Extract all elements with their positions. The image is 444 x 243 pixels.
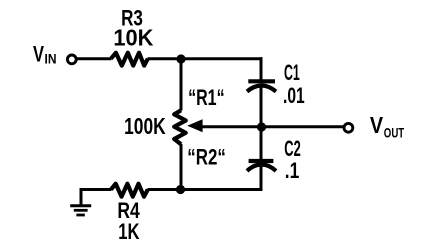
node dot wiper (junction wiper / C1 / C2 / VOUT): [257, 122, 266, 131]
svg-text:V: V: [33, 41, 44, 66]
terminal VOUT: [344, 123, 353, 132]
svg-text:.01: .01: [283, 83, 305, 108]
capacitor C1: [247, 81, 276, 91]
wire wiper node to C2: [260, 127, 263, 160]
svg-text:“R1“: “R1“: [188, 85, 225, 110]
svg-text:“R2“: “R2“: [187, 144, 226, 169]
svg-text:V: V: [370, 112, 384, 138]
wire R3 to top corner: [148, 57, 263, 60]
capacitor C2: [247, 161, 276, 171]
svg-text:10K: 10K: [113, 24, 153, 50]
wire R4 to bottom right corner: [148, 188, 263, 191]
node dot top (junction R3 / pot / C1): [176, 54, 185, 63]
wire pot top (node to potentiometer): [180, 57, 183, 110]
svg-text:OUT: OUT: [384, 125, 405, 141]
ground symbol: [70, 206, 91, 215]
svg-text:.1: .1: [285, 158, 300, 183]
wire C1 to wiper node: [260, 86, 263, 129]
svg-text:IN: IN: [45, 52, 57, 67]
resistor R3: [111, 53, 148, 66]
svg-text:C1: C1: [284, 60, 300, 85]
wire top corner down to C1: [260, 57, 263, 80]
svg-text:1K: 1K: [118, 219, 139, 243]
wire wiper to VOUT: [203, 125, 344, 128]
wire pot bottom to bottom wire: [180, 144, 183, 191]
node dot bottom (junction R4 / pot / C2): [176, 185, 185, 194]
svg-text:100K: 100K: [124, 113, 166, 139]
terminal VIN: [67, 55, 76, 64]
wire VIN to R3: [77, 57, 112, 60]
wire ground to R4: [80, 188, 112, 191]
potentiometer R1/R2 body (100K): [174, 110, 186, 144]
resistor R4: [111, 184, 148, 197]
label VOUT: [370, 112, 405, 142]
wiper arrow of potentiometer: [187, 119, 202, 132]
wire C2 to bottom corner: [260, 166, 263, 191]
ground stub wire: [80, 188, 83, 206]
label VIN: [33, 41, 57, 66]
